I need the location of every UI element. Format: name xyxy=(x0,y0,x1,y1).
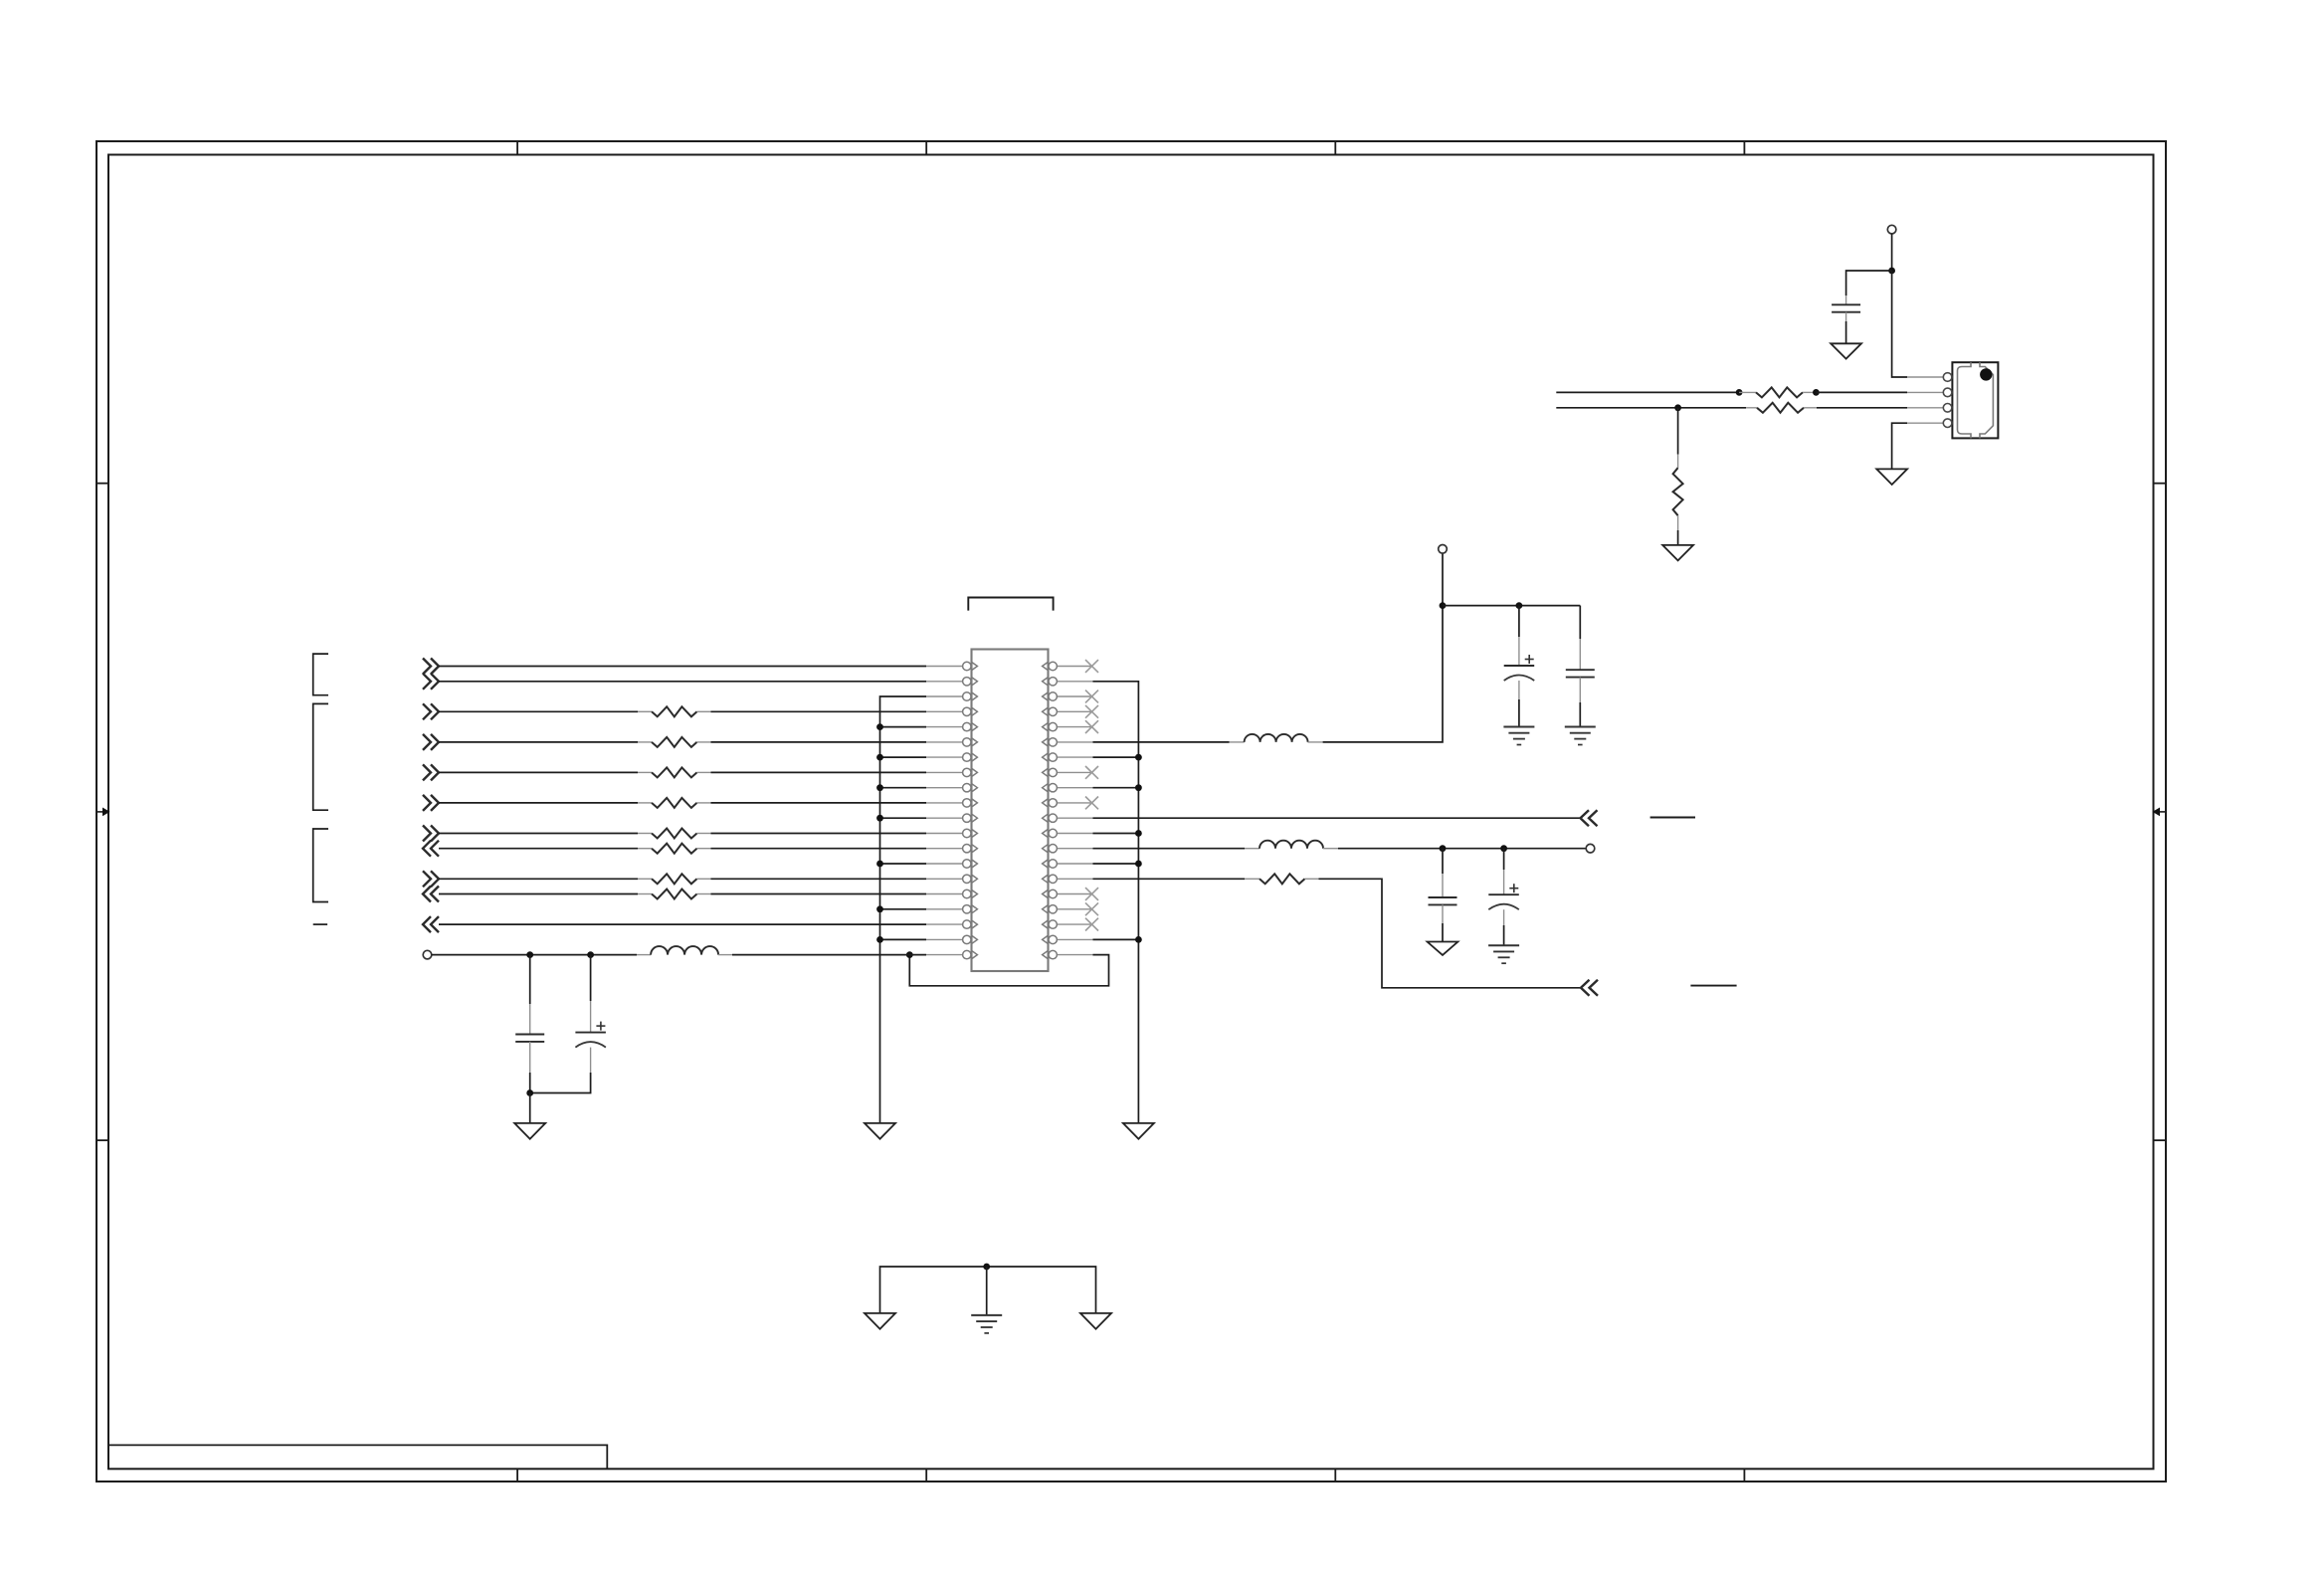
junction power node xyxy=(1440,602,1447,609)
IC U1 left pin 14 xyxy=(926,863,963,865)
IC U1 left pin 19 xyxy=(926,938,963,940)
wire row 15 left segment xyxy=(439,878,638,880)
wire inductor to power node xyxy=(1323,553,1443,742)
IC U1 right pin 12 xyxy=(1057,833,1092,835)
junction row 20 xyxy=(906,951,913,958)
no-connect mark pin 8 xyxy=(1085,766,1098,779)
junction R10 right xyxy=(1813,389,1820,396)
ground R12 xyxy=(1662,545,1693,561)
sheet-pin chevron row 15 (>>) xyxy=(423,871,431,887)
wire row 13 to IC xyxy=(711,848,927,850)
ground left bus xyxy=(865,1123,895,1139)
earth ground centre xyxy=(971,1314,1002,1316)
wire inductor to terminal xyxy=(1338,848,1586,850)
IC U1 right pin 7 xyxy=(1057,756,1092,758)
capacitor C2 (polarized) xyxy=(530,955,606,1093)
IC U1 left pin 2 xyxy=(926,681,963,683)
right bus branch to pin 12 xyxy=(1093,833,1139,835)
no-connect mark pin 10 xyxy=(1085,797,1098,810)
wire row 8 left segment xyxy=(439,771,638,773)
IC U1 left pin 18 xyxy=(926,923,963,925)
IC U1 right pin 17 xyxy=(1057,908,1092,910)
junction bottom tie xyxy=(983,1264,990,1271)
connector J1 pin 3 xyxy=(1943,404,1952,413)
ground C7 xyxy=(1831,343,1861,358)
wire row 15 to IC xyxy=(711,878,927,880)
net label line row11 xyxy=(1650,817,1695,819)
wire row 16 left segment xyxy=(439,893,638,895)
ground C5 xyxy=(1428,942,1458,955)
IC U1 left pin 20 xyxy=(926,954,963,956)
junction left bus pin 11 xyxy=(876,815,883,822)
junction left bus pin 7 xyxy=(876,754,883,761)
IC U1 right pin 20 xyxy=(1057,954,1092,956)
left bus branch to pin 5 xyxy=(880,726,927,728)
wire row 12 left segment xyxy=(439,833,638,835)
wire terminal to node xyxy=(1891,234,1893,271)
IC U1 right pin 3 xyxy=(1057,695,1092,697)
inductor L2 xyxy=(1230,734,1323,742)
title block strip xyxy=(108,1445,607,1469)
no-connect mark pin 4 xyxy=(1085,705,1098,718)
junction C1 tap xyxy=(526,951,533,958)
IC U1 right pin 11 xyxy=(1057,817,1092,819)
junction left bus pin 19 xyxy=(876,936,883,943)
wire row 4 left segment xyxy=(439,710,638,712)
wire to ground xyxy=(529,1093,531,1123)
junction left bus pin 5 xyxy=(876,723,883,730)
sheet-pin chevron row 12 (>>) xyxy=(423,826,431,842)
junction left bus pin 9 xyxy=(876,784,883,791)
sheet-pin chevron row 10 (>>) xyxy=(423,795,431,811)
no-connect mark pin 16 xyxy=(1085,888,1098,900)
sheet-pin chevron row 16 (<<) xyxy=(431,887,439,902)
no-connect mark pin 3 xyxy=(1085,691,1098,703)
junction R12 tap xyxy=(1674,404,1681,411)
output chevron row11 xyxy=(1581,810,1590,826)
IC U1 left pin 16 xyxy=(926,893,963,895)
IC U1 right pin 14 xyxy=(1057,863,1092,865)
IC U1 right pin 19 xyxy=(1057,938,1092,940)
wire row 6 left segment xyxy=(439,741,638,743)
IC U1 right pin 13 xyxy=(1057,848,1092,850)
border zone ticks bottom xyxy=(517,1469,1744,1482)
IC U1 left pin 8 xyxy=(926,771,963,773)
wire row 10 to IC xyxy=(711,802,927,804)
IC U1 left pin 13 xyxy=(926,848,963,850)
IC U1 left pin 3 xyxy=(926,695,963,697)
IC U1 right pin 9 xyxy=(1057,787,1092,789)
junction C6 tap xyxy=(1500,845,1507,852)
junction C2 tap xyxy=(587,951,594,958)
wire row 10 left segment xyxy=(439,802,638,804)
IC U1 left pin 4 xyxy=(926,710,963,712)
left bus branch to pin 9 xyxy=(880,787,927,789)
IC U1 left pin 9 xyxy=(926,787,963,789)
ground right bus xyxy=(1123,1123,1154,1139)
IC U1 left pin 10 xyxy=(926,802,963,804)
resistor R10 xyxy=(1739,387,1816,397)
right bus branch to pin 9 xyxy=(1093,787,1139,789)
wire pin13 to inductor xyxy=(1093,848,1246,850)
left bus branch to pin 19 xyxy=(880,938,927,940)
left bus branch to pin 7 xyxy=(880,756,927,758)
border centre arrow left xyxy=(97,808,110,817)
capacitor C5 xyxy=(1429,849,1457,942)
capacitor C6 (polarized) xyxy=(1488,849,1519,946)
ground tie left xyxy=(865,1313,895,1329)
resistor R4 row 10 xyxy=(638,798,711,808)
wire row 8 to IC xyxy=(711,771,927,773)
wire R10 to connector pin2 xyxy=(1816,391,1907,393)
right bus branch to pin 19 xyxy=(1093,938,1139,940)
IC U1 right pin 15 xyxy=(1057,878,1092,880)
junction C3 tap xyxy=(1516,602,1523,609)
IC U1 left pin 12 xyxy=(926,833,963,835)
IC U1 right pin 18 xyxy=(1057,923,1092,925)
sheet-pin chevron row 18 (<<) xyxy=(431,916,439,932)
right bus branch to pin 7 xyxy=(1093,756,1139,758)
capacitor C1 xyxy=(515,955,544,1093)
junction left bus pin 14 xyxy=(876,861,883,868)
left bus branch to pin 14 xyxy=(880,863,927,865)
junction left bus pin 17 xyxy=(876,905,883,912)
resistor R3 row 8 xyxy=(638,767,711,777)
wire power node to caps xyxy=(1443,605,1580,607)
wire connector pin4 to ground xyxy=(1907,422,1943,424)
earth ground C4 xyxy=(1565,726,1596,728)
IC U1 left pin 17 xyxy=(926,908,963,910)
IC U1 right pin 16 xyxy=(1057,893,1092,895)
bus group bracket 1 xyxy=(313,654,328,695)
output chevron row15 xyxy=(1581,980,1590,996)
sheet-pin chevron row 13 (<<) xyxy=(431,841,439,857)
IC U1 left pin 15 xyxy=(926,878,963,880)
wire row 6 to IC xyxy=(711,741,927,743)
earth ground C6 xyxy=(1488,944,1519,946)
bus group bracket 3 xyxy=(313,829,328,902)
wire row 18 to IC xyxy=(439,923,926,925)
left bus branch to pin 17 xyxy=(880,908,927,910)
resistor R12 (pull-down) xyxy=(1673,408,1683,545)
wire row 13 left segment xyxy=(439,848,638,850)
bus group dash xyxy=(313,923,327,925)
junction node A xyxy=(1888,268,1895,275)
IC U1 left pin 6 xyxy=(926,741,963,743)
bus group bracket 2 xyxy=(313,703,328,810)
resistor R2 row 6 xyxy=(638,737,711,747)
wire line 3 xyxy=(1556,407,1746,409)
sheet-pin chevron row 1 (>>) xyxy=(423,659,431,675)
IC U1 right pin 10 xyxy=(1057,802,1092,804)
junction caps join xyxy=(526,1089,533,1096)
IC U1 right pin 8 xyxy=(1057,771,1092,773)
wire R11 to connector pin3 xyxy=(1817,407,1907,409)
connector J1 pin 4 xyxy=(1943,419,1952,428)
capacitor C3 (polarized) xyxy=(1504,606,1535,727)
wire tie to earth xyxy=(986,1267,988,1315)
no-connect mark pin 18 xyxy=(1085,918,1098,931)
sheet-pin chevron row 4 (>>) xyxy=(423,703,431,719)
wire row 12 to IC xyxy=(711,833,927,835)
wire row 16 to IC xyxy=(711,893,927,895)
sheet inner border xyxy=(108,155,2154,1470)
resistor R6 row 13 xyxy=(638,844,711,854)
IC U1 left pin 5 xyxy=(926,726,963,728)
border zone ticks top xyxy=(517,141,1744,155)
resistor R9 xyxy=(1245,874,1319,884)
power terminal left xyxy=(423,950,432,959)
no-connect mark pin 17 xyxy=(1085,902,1098,915)
IC U1 right pin 1 xyxy=(1057,666,1092,668)
IC U1 right pin 4 xyxy=(1057,710,1092,712)
IC U1 right pin 5 xyxy=(1057,726,1092,728)
wire loop pin 20 to pin 20 xyxy=(909,955,1108,986)
wire inductor to IC xyxy=(732,954,926,956)
resistor R11 xyxy=(1746,403,1817,413)
bracket above IC xyxy=(968,598,1053,611)
border zone ticks left xyxy=(97,484,108,1140)
wire bottom ground tie xyxy=(880,1267,1096,1313)
capacitor C7 xyxy=(1832,271,1892,343)
no-connect mark pin 5 xyxy=(1085,720,1098,733)
no-connect mark pin 1 xyxy=(1085,660,1098,673)
wire pin15 to resistor xyxy=(1093,878,1246,880)
sheet-pin chevron row 8 (>>) xyxy=(423,764,431,780)
ground connector xyxy=(1876,469,1907,485)
IC U1 right pin 2 xyxy=(1057,681,1092,683)
connector J1 body xyxy=(1952,362,1998,438)
wire pin6 to inductor xyxy=(1093,741,1230,743)
power terminal J1 xyxy=(1887,225,1896,234)
power terminal top xyxy=(1439,545,1448,554)
left vertical bus wire xyxy=(880,696,927,1123)
junction right bus pin 12 xyxy=(1135,830,1142,837)
inductor L3 xyxy=(1245,841,1338,849)
right bus branch to pin 14 xyxy=(1093,863,1139,865)
resistor R1 row 4 xyxy=(638,706,711,716)
resistor R7 row 15 xyxy=(638,874,711,884)
wire node to connector pin1 xyxy=(1892,271,1907,377)
wire pin11 output xyxy=(1093,817,1581,819)
wire line 2 xyxy=(1556,391,1739,393)
connector J1 polarity dot xyxy=(1980,368,1992,380)
sheet outer border xyxy=(97,141,2166,1482)
capacitor C4 xyxy=(1566,606,1595,727)
resistor R5 row 12 xyxy=(638,829,711,839)
connector J1 inner outline xyxy=(1958,362,1994,438)
connector J1 pin 2 xyxy=(1943,388,1952,397)
wire row 2 to IC xyxy=(439,681,926,683)
right vertical bus wire xyxy=(1093,682,1139,1123)
border zone ticks right xyxy=(2154,484,2167,1140)
IC U1 left pin 1 xyxy=(926,666,963,668)
ground tie right xyxy=(1080,1313,1111,1329)
wire row 4 to IC xyxy=(711,710,927,712)
IC U1 left pin 7 xyxy=(926,756,963,758)
junction C5 tap xyxy=(1440,845,1447,852)
terminal row13 xyxy=(1586,844,1595,853)
wire power rail xyxy=(432,954,637,956)
junction R10 left xyxy=(1736,389,1743,396)
wire resistor to output xyxy=(1319,879,1582,988)
sheet-pin chevron row 2 (>>) xyxy=(423,674,431,690)
junction right bus pin 9 xyxy=(1135,784,1142,791)
resistor R8 row 16 xyxy=(638,889,711,899)
IC U1 body xyxy=(972,650,1049,972)
junction right bus pin 14 xyxy=(1135,861,1142,868)
net label line row15 xyxy=(1690,985,1736,987)
border centre arrow right xyxy=(2153,808,2167,817)
left bus branch to pin 11 xyxy=(880,817,927,819)
sheet-pin chevron row 6 (>>) xyxy=(423,734,431,750)
junction right bus pin 7 xyxy=(1135,754,1142,761)
IC U1 left pin 11 xyxy=(926,817,963,819)
IC U1 right pin 6 xyxy=(1057,741,1092,743)
wire row 1 to IC xyxy=(439,666,926,668)
earth ground C3 xyxy=(1503,726,1534,728)
ground C1/C2 xyxy=(514,1123,545,1139)
inductor L1 xyxy=(637,946,732,955)
junction right bus pin 19 xyxy=(1135,936,1142,943)
connector J1 pin 1 xyxy=(1943,373,1952,382)
